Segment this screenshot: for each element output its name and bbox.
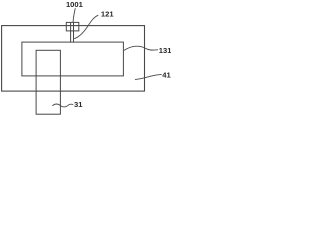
svg-text:41: 41 (162, 71, 171, 80)
leader line to label 41 (135, 74, 161, 79)
leader line to label 1001 (73, 9, 75, 23)
leader line to label 131 (124, 46, 157, 50)
inner panel rectangle 131 (22, 42, 124, 76)
connector tube 121 right wall (73, 23, 75, 43)
svg-text:131: 131 (159, 46, 171, 55)
leader line to label 121 (75, 15, 98, 38)
svg-text:121: 121 (101, 9, 114, 18)
connector tube 121 left wall (70, 23, 72, 43)
svg-text:1001: 1001 (66, 0, 84, 9)
svg-text:31: 31 (74, 100, 83, 109)
connector box 121 outline (66, 22, 79, 31)
leader line to label 31 (53, 104, 73, 107)
lower module rectangle 31 (36, 50, 60, 114)
outer case rectangle 41 (2, 26, 145, 92)
